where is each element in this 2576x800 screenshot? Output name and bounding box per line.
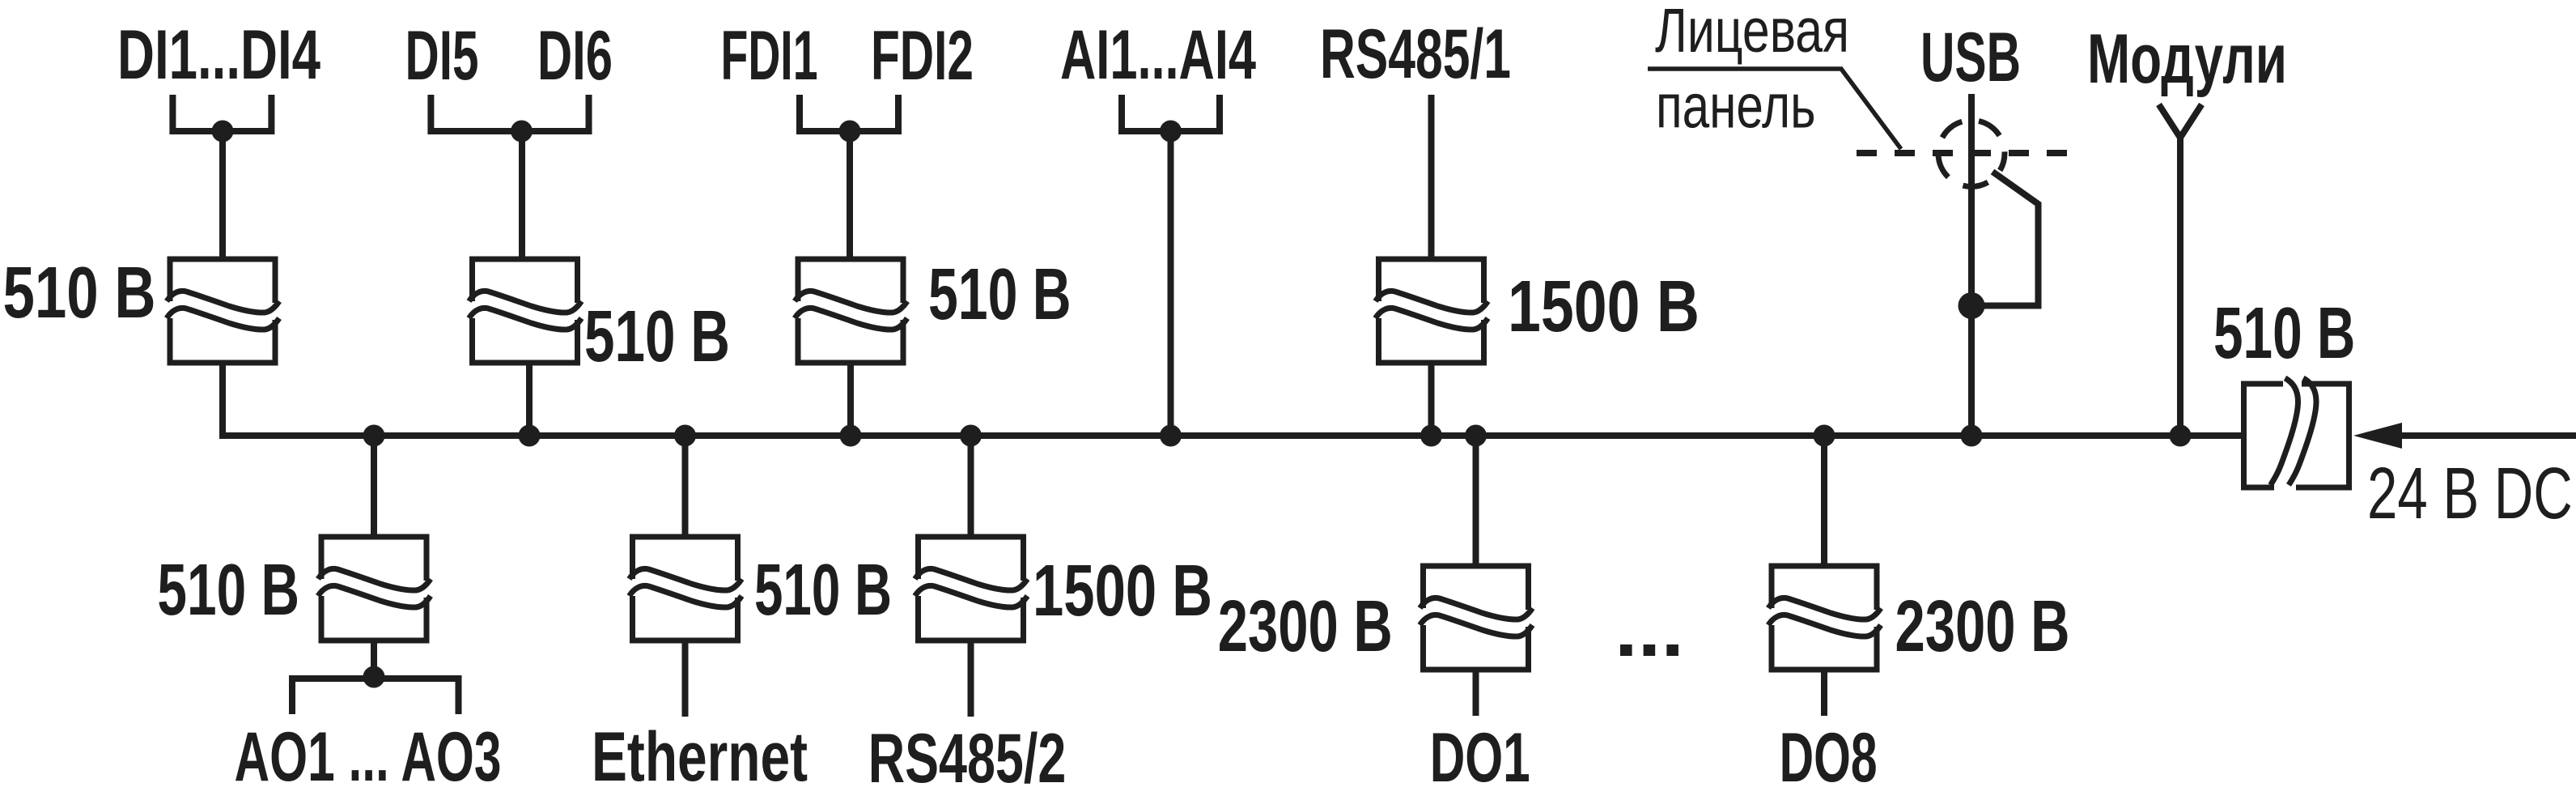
isolation barrier 2300V DO1: upper wave xyxy=(1420,598,1533,619)
isolation barrier 510V AO1-AO3: box top half xyxy=(321,537,427,581)
svg-text:панель: панель xyxy=(1656,72,1816,142)
wire AI1...AI4 to bus xyxy=(1168,131,1174,436)
isolation barrier 510V DI1-DI4: upper wave xyxy=(167,291,279,313)
isolation barrier 2300V DO1: box top half xyxy=(1424,566,1529,610)
svg-text:DO1: DO1 xyxy=(1430,719,1530,797)
isolation barrier 510V DI1-DI4: box top half xyxy=(170,259,275,303)
isolation barrier 1500V RS485/2: box bottom half xyxy=(919,596,1024,640)
wire Moduli to bus xyxy=(2177,137,2183,436)
junction dot bus/AI xyxy=(1160,425,1182,447)
isolation barrier 2300V DO1: box bottom half xyxy=(1424,625,1529,670)
isolation barrier 510V FDI1-FDI2: upper wave xyxy=(795,291,907,313)
isolation barrier 1500V RS485/1: box bottom half xyxy=(1379,318,1484,363)
wire 24V DC input xyxy=(2398,432,2576,439)
wire bus to DO1 barrier xyxy=(1473,436,1479,566)
wire AO barrier to bracket xyxy=(371,640,377,679)
svg-text:510 В: 510 В xyxy=(584,296,730,377)
wire DO8 barrier down xyxy=(1821,670,1827,716)
wire USB bypass loop xyxy=(1971,172,2039,306)
wire RS485/2 barrier down xyxy=(968,640,974,717)
isolation barrier 1500V RS485/2: upper wave xyxy=(915,568,1028,590)
svg-text:510 В: 510 В xyxy=(157,550,299,631)
svg-text:RS485/2: RS485/2 xyxy=(868,720,1067,798)
isolation barrier 510V Ethernet: upper wave xyxy=(630,568,742,590)
isolation barrier 510V FDI1-FDI2: lower wave xyxy=(795,308,907,330)
bracket AI1...AI4 xyxy=(1122,95,1220,131)
svg-text:...: ... xyxy=(1615,587,1684,673)
wire FDI barrier to bus xyxy=(847,363,854,436)
junction dot AO bracket xyxy=(363,666,385,688)
isolation barrier 1500V RS485/1: box top half xyxy=(1379,259,1484,303)
svg-text:FDI2: FDI2 xyxy=(871,17,974,95)
isolation barrier 2300V DO1: lower wave xyxy=(1420,615,1533,636)
isolation barrier 510V DI5-DI6: upper wave xyxy=(469,291,582,313)
isolation barrier 510V DI5-DI6: box bottom half xyxy=(473,318,578,363)
svg-text:USB: USB xyxy=(1920,19,2021,96)
svg-text:510 В: 510 В xyxy=(928,254,1072,335)
junction dot bus/RS485-2 xyxy=(960,425,982,447)
svg-text:DI6: DI6 xyxy=(537,17,613,95)
svg-text:Ethernet: Ethernet xyxy=(592,718,808,796)
wire DI5/DI6 to barrier xyxy=(519,131,525,259)
isolation barrier 510V 24VDC: box right part xyxy=(2296,384,2349,487)
junction dot bus/DO1 xyxy=(1465,425,1487,447)
wire DI1...DI4 to barrier xyxy=(219,131,226,259)
junction dot bus/FDI xyxy=(840,425,862,447)
wire Ethernet barrier down xyxy=(682,640,689,717)
dashed circle (front panel USB port) xyxy=(1938,121,2005,187)
isolation barrier 510V AO1-AO3: upper wave xyxy=(318,568,431,590)
junction dot FDI bracket xyxy=(839,121,861,143)
wire RS485/1 barrier to bus xyxy=(1428,363,1435,436)
isolation barrier 510V Ethernet: lower wave xyxy=(630,585,742,607)
wire FDI to barrier xyxy=(847,131,853,259)
isolation barrier 510V Ethernet: box top half xyxy=(633,537,738,581)
svg-text:510 В: 510 В xyxy=(2213,293,2355,374)
isolation barrier 2300V DO8: lower wave xyxy=(1768,615,1881,636)
isolation barrier 510V AO1-AO3: lower wave xyxy=(318,585,431,607)
isolation barrier 510V 24VDC: box left part xyxy=(2244,384,2284,487)
isolation barrier 510V 24VDC: right wave xyxy=(2289,378,2316,485)
junction dot bus/Moduli xyxy=(2170,425,2192,447)
wire RS485/1 to barrier xyxy=(1428,95,1435,259)
wire bus to AO barrier xyxy=(371,436,377,537)
svg-text:DI1...DI4: DI1...DI4 xyxy=(117,16,320,94)
isolation barrier 2300V DO8: box top half xyxy=(1772,566,1877,610)
isolation barrier 510V DI5-DI6: box top half xyxy=(473,259,578,303)
wire bus to Ethernet barrier xyxy=(682,436,689,537)
isolation barrier 1500V RS485/1: upper wave xyxy=(1376,291,1488,313)
wire bus to RS485/2 barrier xyxy=(968,436,974,537)
isolation barrier 2300V DO8: box bottom half xyxy=(1772,625,1877,670)
isolation barrier 1500V RS485/2: lower wave xyxy=(915,585,1028,607)
svg-text:510 В: 510 В xyxy=(754,550,892,631)
isolation barrier 510V FDI1-FDI2: box top half xyxy=(798,259,903,303)
junction dot bus/Ethernet xyxy=(674,425,696,447)
junction dot bus/AO xyxy=(363,425,385,447)
isolation barrier 2300V DO8: upper wave xyxy=(1768,598,1881,619)
junction dot bus/USB xyxy=(1961,425,1983,447)
isolation barrier 1500V RS485/2: box top half xyxy=(919,537,1024,581)
junction dot bus/RS485-1 xyxy=(1420,425,1442,447)
isolation barrier 510V AO1-AO3: box bottom half xyxy=(321,596,427,640)
wire bus to DO8 barrier xyxy=(1821,436,1827,566)
junction dot DI1...DI4 bracket xyxy=(212,121,234,143)
svg-text:FDI1: FDI1 xyxy=(721,17,818,95)
svg-text:2300 В: 2300 В xyxy=(1218,586,1393,667)
svg-text:24 В DC: 24 В DC xyxy=(2367,453,2573,534)
callout leader line front panel xyxy=(1648,69,1901,149)
junction dot DI5/DI6 bracket xyxy=(511,121,533,143)
bracket FDI1/FDI2 xyxy=(800,95,898,131)
svg-text:DO8: DO8 xyxy=(1780,719,1878,797)
svg-text:1500 В: 1500 В xyxy=(1033,551,1212,632)
wire DI5/DI6 barrier to bus xyxy=(526,363,533,436)
bracket DI1...DI4 xyxy=(172,95,271,131)
svg-text:AI1...AI4: AI1...AI4 xyxy=(1060,16,1256,94)
arrowhead 24V DC input xyxy=(2353,423,2402,449)
wire: main common bus with DI1...DI4 branch drop xyxy=(223,363,2244,436)
svg-text:DI5: DI5 xyxy=(405,17,479,95)
svg-text:AO1 ... AO3: AO1 ... AO3 xyxy=(235,718,502,796)
junction dot USB loop xyxy=(1959,292,1985,319)
dashed front-panel boundary line xyxy=(1857,150,2070,156)
svg-text:1500 В: 1500 В xyxy=(1508,266,1700,347)
isolation barrier 510V DI5-DI6: lower wave xyxy=(469,308,582,330)
junction dot AI bracket xyxy=(1160,121,1182,143)
isolation barrier 510V FDI1-FDI2: box bottom half xyxy=(798,318,903,363)
svg-text:Модули: Модули xyxy=(2087,20,2287,98)
wire DO1 barrier down xyxy=(1473,670,1479,716)
junction dot bus/DI5-DI6 xyxy=(519,425,541,447)
wire USB to bus xyxy=(1968,94,1975,436)
junction dot bus/DO8 xyxy=(1814,425,1835,447)
isolation barrier 510V Ethernet: box bottom half xyxy=(633,596,738,640)
svg-text:Лицевая: Лицевая xyxy=(1655,0,1849,66)
bracket AO1...AO3 (downward) xyxy=(292,679,459,714)
isolation barrier 510V 24VDC: left wave xyxy=(2271,378,2298,485)
svg-text:2300 В: 2300 В xyxy=(1895,586,2070,667)
isolation barrier 1500V RS485/1: lower wave xyxy=(1376,308,1488,330)
fork symbol Moduli xyxy=(2159,104,2202,138)
isolation barrier 510V DI1-DI4: box bottom half xyxy=(170,318,275,363)
svg-text:RS485/1: RS485/1 xyxy=(1320,15,1511,93)
isolation barrier 510V DI1-DI4: lower wave xyxy=(167,308,279,330)
svg-text:510 В: 510 В xyxy=(3,253,156,334)
bracket DI5/DI6 xyxy=(431,95,588,131)
